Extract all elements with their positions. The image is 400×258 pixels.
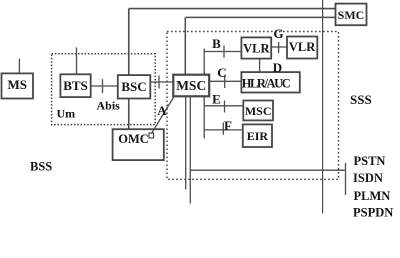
svg-text:VLR: VLR xyxy=(289,40,316,54)
svg-text:C: C xyxy=(217,65,226,80)
svg-text:D: D xyxy=(273,60,282,75)
svg-text:MS: MS xyxy=(7,77,27,92)
svg-text:MSC: MSC xyxy=(176,78,206,93)
svg-text:OMC: OMC xyxy=(118,132,149,146)
svg-text:E: E xyxy=(212,92,221,107)
svg-text:EIR: EIR xyxy=(247,129,269,143)
svg-text:BSC: BSC xyxy=(121,79,146,94)
svg-text:B: B xyxy=(212,36,221,51)
svg-text:F: F xyxy=(224,118,232,133)
svg-text:HLR/AUC: HLR/AUC xyxy=(242,77,291,91)
svg-text:ISDN: ISDN xyxy=(353,171,383,185)
svg-text:Um: Um xyxy=(57,107,76,121)
svg-text:Abis: Abis xyxy=(97,99,121,113)
svg-text:BTS: BTS xyxy=(63,78,88,93)
svg-text:A: A xyxy=(157,103,167,118)
svg-text:PSTN: PSTN xyxy=(354,154,386,168)
svg-text:SSS: SSS xyxy=(350,92,372,107)
svg-text:G: G xyxy=(273,26,283,41)
svg-text:PLMN: PLMN xyxy=(354,189,391,203)
svg-text:PSPDN: PSPDN xyxy=(353,205,393,219)
svg-text:BSS: BSS xyxy=(30,160,52,174)
svg-text:SMC: SMC xyxy=(338,8,365,22)
svg-text:MSC: MSC xyxy=(245,104,272,118)
svg-text:VLR: VLR xyxy=(243,42,270,56)
